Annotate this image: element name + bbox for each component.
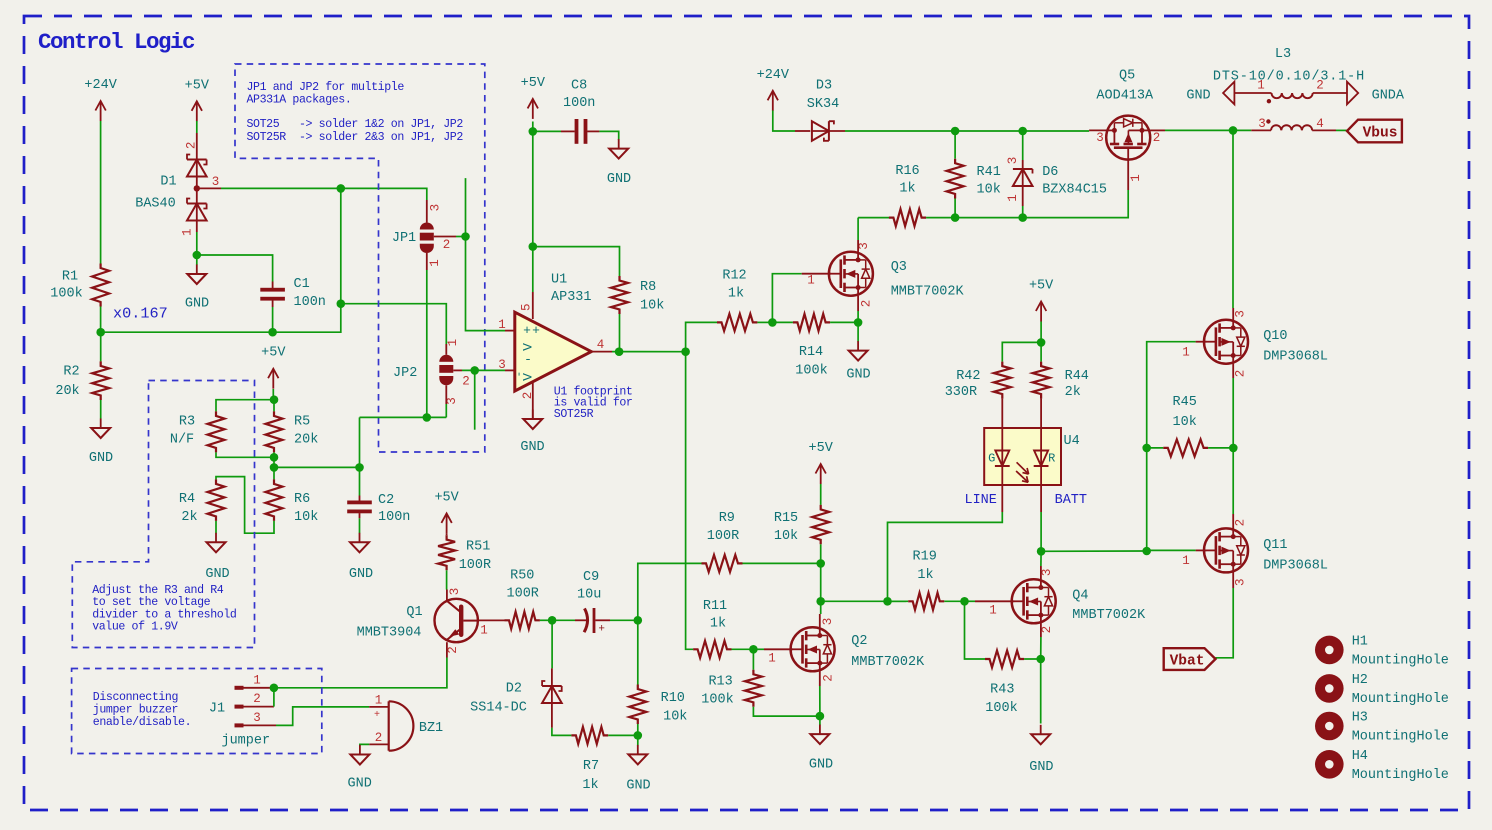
wire C9 right bbox=[610, 619, 638, 621]
svg-text:100n: 100n bbox=[378, 510, 410, 525]
wire Q1 emitter to J1 bbox=[274, 658, 447, 688]
wire +5V node R5 bbox=[272, 389, 274, 400]
wire C8 to gnd bbox=[599, 131, 618, 140]
svg-text:U1: U1 bbox=[551, 273, 567, 288]
svg-text:10k: 10k bbox=[977, 183, 1001, 198]
pin Q2 drain bbox=[819, 614, 821, 627]
wire vertical x465 bbox=[466, 178, 506, 331]
svg-text:Vbat: Vbat bbox=[1170, 654, 1205, 670]
svg-text:R50: R50 bbox=[510, 569, 534, 584]
node bus junction R1/R2 bbox=[96, 328, 105, 337]
svg-text:GND: GND bbox=[1186, 89, 1210, 104]
svg-text:100R: 100R bbox=[459, 558, 491, 573]
node Q11 gate junction bbox=[1142, 547, 1151, 556]
svg-text:D1: D1 bbox=[160, 175, 176, 190]
node R41 bottom junction bbox=[951, 213, 960, 222]
ground R10 bbox=[637, 745, 639, 755]
svg-text:Disconnecting: Disconnecting bbox=[93, 691, 178, 704]
svg-text:10k: 10k bbox=[663, 710, 687, 725]
svg-text:C1: C1 bbox=[294, 277, 310, 292]
wire D2 column bbox=[551, 620, 553, 668]
power +5V (R15) bbox=[820, 464, 822, 484]
svg-text:20k: 20k bbox=[294, 433, 318, 448]
wire R43 left to gate column bbox=[965, 601, 986, 659]
svg-text:1: 1 bbox=[1182, 346, 1190, 360]
svg-text:+5V: +5V bbox=[1029, 279, 1054, 294]
svg-text:1k: 1k bbox=[710, 617, 726, 632]
svg-text:DMP3068L: DMP3068L bbox=[1263, 350, 1328, 365]
note box adjust R3 R4 bbox=[72, 381, 254, 648]
svg-text:2: 2 bbox=[1234, 370, 1248, 378]
svg-text:3: 3 bbox=[1040, 569, 1054, 577]
svg-text:BATT: BATT bbox=[1055, 493, 1087, 508]
svg-text:+24V: +24V bbox=[84, 78, 117, 93]
svg-text:+5V: +5V bbox=[434, 490, 459, 505]
svg-text:4: 4 bbox=[597, 338, 605, 352]
svg-text:+5V: +5V bbox=[261, 346, 286, 361]
pin Q3 source bbox=[857, 296, 859, 311]
wire BATT row right bbox=[1041, 550, 1147, 552]
svg-text:10k: 10k bbox=[640, 299, 664, 314]
svg-text:AP331: AP331 bbox=[551, 290, 592, 305]
node junction C2 column bbox=[355, 463, 364, 472]
svg-text:MountingHole: MountingHole bbox=[1352, 768, 1449, 783]
pin Q2 gate wire bbox=[753, 648, 764, 650]
node Q3 source junction bbox=[854, 318, 863, 327]
resistor R16 bbox=[858, 217, 889, 219]
svg-text:SOT25R: SOT25R bbox=[554, 408, 594, 421]
svg-text:1k: 1k bbox=[728, 287, 744, 302]
node R45 right junction bbox=[1229, 444, 1238, 453]
svg-text:1: 1 bbox=[446, 339, 460, 347]
wire +5V to R15 bbox=[820, 484, 822, 505]
svg-text:+: + bbox=[523, 323, 531, 338]
wire R50 right bbox=[540, 619, 552, 621]
transistor Q5 bbox=[1106, 116, 1150, 160]
resistor R51 bbox=[438, 535, 455, 570]
wire JP1 pin2 bbox=[434, 236, 456, 238]
power +5V (R5) bbox=[272, 369, 274, 389]
node BATT junction bbox=[1037, 547, 1046, 556]
wire BZ1 to gnd bbox=[360, 744, 369, 745]
transistor Q1 bbox=[435, 599, 478, 642]
node Q2 source junction bbox=[816, 712, 825, 721]
svg-text:C8: C8 bbox=[571, 79, 587, 94]
hier label GNDA bbox=[1347, 82, 1358, 105]
wire Q2 source down bbox=[819, 686, 821, 725]
resistor R44 bbox=[1040, 342, 1042, 361]
svg-text:2: 2 bbox=[462, 375, 470, 389]
ground R4 bbox=[215, 533, 217, 543]
svg-text:SOT25 -> solder 1&2 on JP1,: SOT25 -> solder 1&2 on JP1, JP2 bbox=[247, 118, 464, 131]
node R9/R15 junction bbox=[816, 559, 825, 568]
optocoupler U4 bbox=[984, 428, 1061, 485]
svg-text:+5V: +5V bbox=[185, 78, 210, 93]
svg-text:GND: GND bbox=[809, 758, 833, 773]
resistor R6 bbox=[273, 467, 275, 479]
ground Q4 bbox=[1040, 725, 1042, 735]
svg-text:R15: R15 bbox=[774, 511, 798, 526]
svg-text:BAS40: BAS40 bbox=[135, 197, 176, 212]
svg-text:100R: 100R bbox=[707, 529, 739, 544]
resistor R19 bbox=[888, 600, 909, 602]
wire C8 left bbox=[533, 130, 561, 132]
svg-text:R7: R7 bbox=[583, 759, 599, 774]
wire +5V to U4 node bbox=[1040, 322, 1042, 343]
pin Q1 base wire bbox=[479, 619, 505, 621]
svg-text:MountingHole: MountingHole bbox=[1352, 653, 1449, 668]
svg-text:100k: 100k bbox=[795, 364, 827, 379]
wire Q4 source down bbox=[1040, 637, 1042, 724]
pin BZ1 pin1 bbox=[369, 706, 389, 708]
resistor R50 bbox=[505, 612, 540, 629]
svg-text:divider to a threshold: divider to a threshold bbox=[92, 608, 236, 621]
svg-text:1: 1 bbox=[989, 604, 997, 618]
wire +5V to R51 bbox=[446, 533, 448, 535]
transistor Q2 bbox=[791, 627, 835, 671]
node C9 right junction bbox=[634, 616, 643, 625]
svg-text:R14: R14 bbox=[799, 345, 823, 360]
ground C8 bbox=[618, 139, 620, 149]
power +5V (R51) bbox=[446, 513, 448, 533]
svg-text:GND: GND bbox=[205, 567, 229, 582]
svg-text:3: 3 bbox=[429, 204, 443, 212]
wire R9 left column bbox=[638, 563, 702, 620]
svg-text:1: 1 bbox=[807, 274, 815, 288]
node JP1 pin2 junction bbox=[461, 232, 470, 241]
wire R2 to gnd bbox=[100, 400, 102, 419]
svg-text:Q10: Q10 bbox=[1263, 329, 1287, 344]
wire C2 top bbox=[359, 467, 361, 495]
wire R19 right bbox=[944, 600, 964, 602]
pin U1 pin4 output bbox=[591, 351, 612, 353]
svg-text:Q5: Q5 bbox=[1119, 69, 1135, 84]
wire D1 anode to gnd node bbox=[196, 232, 198, 255]
node R12/R14 junction bbox=[768, 318, 777, 327]
wire +5V to C8 node bbox=[532, 122, 534, 132]
node +5V junction bbox=[270, 395, 279, 404]
wire Vbus column down bbox=[1232, 130, 1234, 308]
svg-text:R5: R5 bbox=[294, 415, 310, 430]
svg-text:G: G bbox=[988, 452, 995, 466]
svg-text:R13: R13 bbox=[708, 675, 732, 690]
svg-text:10k: 10k bbox=[774, 529, 798, 544]
wire R16 left to Q3 drain bbox=[857, 218, 859, 240]
wire Q2 column bbox=[820, 563, 822, 614]
svg-text:GND: GND bbox=[349, 567, 373, 582]
svg-text:jumper buzzer: jumper buzzer bbox=[93, 704, 178, 717]
svg-text:1: 1 bbox=[1182, 554, 1190, 568]
resistor R10 bbox=[637, 620, 639, 684]
mounting hole H3 bbox=[1315, 712, 1344, 741]
wire L3 to Vbus bbox=[1336, 129, 1347, 131]
node output junction R8 bbox=[615, 347, 624, 356]
wire row y417 bbox=[360, 416, 447, 418]
wire R51 to Q1 bbox=[446, 570, 448, 589]
wire R9 right bbox=[743, 562, 821, 564]
svg-text:1k: 1k bbox=[899, 182, 915, 197]
svg-text:3: 3 bbox=[1234, 310, 1248, 318]
wire R7 right bbox=[608, 734, 638, 736]
svg-text:BZX84C15: BZX84C15 bbox=[1042, 183, 1107, 198]
svg-text:3: 3 bbox=[448, 588, 462, 596]
node C8 junction bbox=[529, 127, 538, 136]
pin Q5 gate wire bbox=[1127, 160, 1129, 190]
svg-text:3: 3 bbox=[857, 242, 871, 250]
svg-text:GND: GND bbox=[846, 368, 870, 383]
resistor R15 bbox=[812, 505, 829, 544]
svg-text:Q4: Q4 bbox=[1072, 589, 1088, 604]
pin Q11 pin2 bbox=[1232, 514, 1234, 529]
svg-text:3: 3 bbox=[212, 175, 220, 189]
pin Q11 pin3 bbox=[1232, 572, 1234, 588]
wire to C9 bbox=[552, 619, 575, 621]
svg-text:C9: C9 bbox=[583, 570, 599, 585]
svg-text:DMP3068L: DMP3068L bbox=[1263, 559, 1328, 574]
diode D3 bbox=[795, 130, 810, 132]
resistor R11 bbox=[693, 641, 731, 658]
wire Q11 to Vbat bbox=[1216, 588, 1234, 658]
node mid divider junction bbox=[270, 463, 279, 472]
wire C2 to gnd bbox=[359, 518, 361, 533]
node R42/R44 junction bbox=[1037, 338, 1046, 347]
pin Q2 source bbox=[819, 671, 821, 686]
svg-text:+: + bbox=[598, 623, 605, 635]
ground BZ1 bbox=[359, 745, 361, 755]
svg-text:Adjust the R3 and R4: Adjust the R3 and R4 bbox=[92, 584, 224, 597]
wire up to JP row bbox=[359, 417, 361, 467]
resistor R7 bbox=[571, 727, 608, 744]
svg-text:R9: R9 bbox=[719, 511, 735, 526]
diode D6 zener bbox=[1022, 131, 1024, 160]
wire R13 to Q2 source bbox=[753, 707, 820, 716]
svg-text:2: 2 bbox=[521, 392, 535, 400]
wire D1 pin3 to JP1 bbox=[197, 187, 221, 189]
svg-text:U4: U4 bbox=[1064, 434, 1080, 449]
node JP2 pin2 junction bbox=[470, 366, 479, 375]
power +24V (D3) bbox=[772, 91, 774, 111]
svg-text:2: 2 bbox=[822, 674, 836, 682]
svg-text:MMBT7002K: MMBT7002K bbox=[891, 285, 965, 300]
ground Q2 bbox=[819, 725, 821, 735]
svg-text:+: + bbox=[374, 710, 380, 721]
svg-text:1: 1 bbox=[1257, 79, 1265, 93]
svg-text:L3: L3 bbox=[1275, 47, 1291, 62]
svg-text:2k: 2k bbox=[181, 510, 197, 525]
svg-text:R42: R42 bbox=[956, 369, 980, 384]
resistor R4 bbox=[208, 479, 225, 521]
svg-text:3: 3 bbox=[253, 711, 261, 725]
wire R15 bottom bbox=[820, 544, 822, 563]
wire JP1 pin1 down bbox=[426, 253, 428, 270]
wire C1 to bus bbox=[272, 307, 274, 332]
svg-text:Q3: Q3 bbox=[891, 260, 907, 275]
svg-text:100k: 100k bbox=[985, 701, 1017, 716]
node R7/R10 junction bbox=[634, 731, 643, 740]
resistor R3 bbox=[208, 411, 225, 452]
node D1 gnd junction bbox=[193, 251, 202, 260]
resistor R9 bbox=[702, 555, 743, 572]
capacitor C2 bbox=[359, 496, 361, 501]
mounting hole H1 bbox=[1315, 636, 1344, 665]
svg-text:1: 1 bbox=[768, 652, 776, 666]
svg-text:1: 1 bbox=[253, 673, 261, 687]
svg-text:1k: 1k bbox=[917, 568, 933, 583]
svg-text:20k: 20k bbox=[55, 384, 79, 399]
svg-text:R3: R3 bbox=[179, 415, 195, 430]
pin Q4 gate wire bbox=[965, 600, 976, 602]
hier label GND bbox=[1223, 82, 1234, 105]
wire bus x0.167 bbox=[101, 304, 341, 333]
wire drain row right bbox=[821, 600, 907, 602]
svg-text:DTS-10/0.10/3.1-H: DTS-10/0.10/3.1-H bbox=[1213, 70, 1365, 85]
mounting hole H2 bbox=[1315, 674, 1344, 703]
wire Q3 source gnd bbox=[857, 322, 859, 341]
power +5V (C8/U1) bbox=[532, 99, 534, 119]
svg-text:2: 2 bbox=[253, 692, 261, 706]
ground Q3 bbox=[857, 341, 859, 351]
resistor R42 bbox=[994, 362, 1011, 399]
svg-text:J1: J1 bbox=[209, 702, 225, 717]
pin U1 pin1 bbox=[505, 330, 515, 332]
svg-text:2: 2 bbox=[1234, 519, 1248, 527]
svg-text:R44: R44 bbox=[1065, 369, 1089, 384]
wire pin5 stub bbox=[532, 247, 534, 292]
node JP1 pin1 junction bbox=[423, 413, 432, 422]
svg-text:GND: GND bbox=[89, 451, 113, 466]
pin Q5 drain left bbox=[1089, 129, 1106, 131]
svg-text:GND: GND bbox=[1029, 760, 1053, 775]
wire vertical x340 bbox=[340, 188, 342, 303]
resistor R12 bbox=[717, 314, 757, 331]
svg-text:SOT25R -> solder 2&3 on JP1,: SOT25R -> solder 2&3 on JP1, JP2 bbox=[247, 131, 464, 144]
wire gate column down bbox=[1146, 448, 1148, 551]
jumper JP2 bbox=[445, 344, 447, 355]
pin Q11 gate bbox=[1196, 549, 1207, 551]
svg-text:AP331A packages.: AP331A packages. bbox=[247, 93, 352, 106]
wire bottom rail y217 bbox=[926, 190, 1128, 218]
pin Q4 drain bbox=[1040, 566, 1042, 579]
wire +5V rail to U1 pin5 bbox=[532, 131, 534, 246]
svg-text:2: 2 bbox=[859, 300, 873, 308]
wire output column down bbox=[686, 352, 693, 650]
wire to JP2 pin1 bbox=[341, 304, 447, 344]
svg-text:10k: 10k bbox=[294, 510, 318, 525]
svg-text:BZ1: BZ1 bbox=[419, 721, 443, 736]
svg-text:10k: 10k bbox=[1173, 415, 1197, 430]
wire +5V to D1 bbox=[196, 121, 198, 133]
node R45 left junction bbox=[1142, 444, 1151, 453]
svg-text:MMBT7002K: MMBT7002K bbox=[1072, 608, 1146, 623]
svg-text:value of 1.9V: value of 1.9V bbox=[92, 621, 178, 634]
wire dangling stub bbox=[474, 370, 476, 429]
pin Q5 source right bbox=[1150, 129, 1165, 131]
capacitor C8 bbox=[561, 130, 575, 132]
svg-text:2: 2 bbox=[446, 646, 460, 654]
node output junction mid bbox=[681, 347, 690, 356]
wire D2 to R7 bbox=[552, 728, 572, 736]
wire Q3 gate bbox=[772, 274, 801, 323]
light arrow U4 bbox=[1017, 462, 1029, 473]
svg-text:1: 1 bbox=[1129, 174, 1143, 182]
wire Q11 gate row bbox=[1147, 549, 1196, 551]
resistor R45 bbox=[1147, 447, 1164, 449]
svg-text:+5V: +5V bbox=[521, 76, 546, 91]
svg-text:MMBT7002K: MMBT7002K bbox=[851, 655, 925, 670]
wire R43 row bbox=[1024, 658, 1041, 660]
node Q2 gate junction bbox=[749, 645, 758, 654]
node R19 left junction bbox=[883, 597, 892, 606]
wire +24V to R1 bbox=[100, 121, 102, 264]
svg-text:Q1: Q1 bbox=[406, 605, 422, 620]
node junction x340 bbox=[337, 184, 346, 193]
svg-text:+5V: +5V bbox=[809, 441, 834, 456]
pin U1 pin3 bbox=[505, 369, 515, 371]
svg-text:330R: 330R bbox=[945, 385, 977, 400]
svg-text:D2: D2 bbox=[506, 682, 522, 697]
wire R1 to bus bbox=[100, 307, 102, 333]
svg-text:H4: H4 bbox=[1352, 749, 1368, 764]
transistor Q3 bbox=[829, 252, 873, 296]
svg-text:R51: R51 bbox=[466, 540, 490, 555]
diode D1 upper bbox=[196, 133, 198, 160]
pin Q10 pin3 bbox=[1232, 308, 1234, 320]
svg-text:R1: R1 bbox=[62, 270, 78, 285]
note box JP packages bbox=[235, 64, 485, 452]
svg-text:enable/disable.: enable/disable. bbox=[93, 716, 191, 729]
pin Q4 source bbox=[1040, 623, 1042, 637]
svg-text:GNDA: GNDA bbox=[1372, 89, 1405, 104]
svg-text:AOD413A: AOD413A bbox=[1096, 89, 1154, 104]
svg-text:R8: R8 bbox=[640, 280, 656, 295]
svg-text:GND: GND bbox=[185, 297, 209, 312]
svg-text:1: 1 bbox=[375, 694, 383, 708]
svg-text:V: V bbox=[521, 343, 536, 351]
svg-text:R19: R19 bbox=[913, 550, 937, 565]
pin Q3 drain bbox=[857, 240, 859, 252]
svg-text:H1: H1 bbox=[1352, 634, 1368, 649]
svg-text:1: 1 bbox=[180, 228, 194, 236]
svg-text:JP1: JP1 bbox=[392, 231, 416, 246]
resistor R2 bbox=[100, 332, 102, 361]
svg-text:H2: H2 bbox=[1352, 673, 1368, 688]
buzzer BZ1 bbox=[388, 701, 390, 750]
svg-text:D6: D6 bbox=[1042, 165, 1058, 180]
svg-text:SK34: SK34 bbox=[807, 97, 839, 112]
svg-text:2: 2 bbox=[1316, 79, 1324, 93]
ground R2 bbox=[100, 419, 102, 429]
node D1 pin3 bbox=[194, 185, 200, 191]
svg-text:R41: R41 bbox=[977, 165, 1001, 180]
svg-text:R4: R4 bbox=[179, 492, 195, 507]
wire +24V to D3 bbox=[773, 111, 795, 132]
svg-text:100n: 100n bbox=[294, 295, 326, 310]
svg-text:4: 4 bbox=[1316, 117, 1324, 131]
svg-text:3: 3 bbox=[1234, 578, 1248, 586]
wire Q5 to L3 bbox=[1165, 129, 1251, 131]
pin Q1 emitter bbox=[446, 642, 448, 657]
svg-text:5: 5 bbox=[519, 303, 533, 311]
ground U1 bbox=[532, 410, 534, 420]
op-amp U1 bbox=[515, 312, 592, 391]
hier label Vbus bbox=[1347, 120, 1402, 143]
svg-text:Q2: Q2 bbox=[851, 634, 867, 649]
svg-text:R43: R43 bbox=[990, 683, 1014, 698]
svg-text:100k: 100k bbox=[50, 287, 82, 302]
resistor R43 bbox=[985, 651, 1024, 668]
mounting hole H4 bbox=[1315, 750, 1344, 779]
resistor R5 bbox=[273, 400, 275, 412]
